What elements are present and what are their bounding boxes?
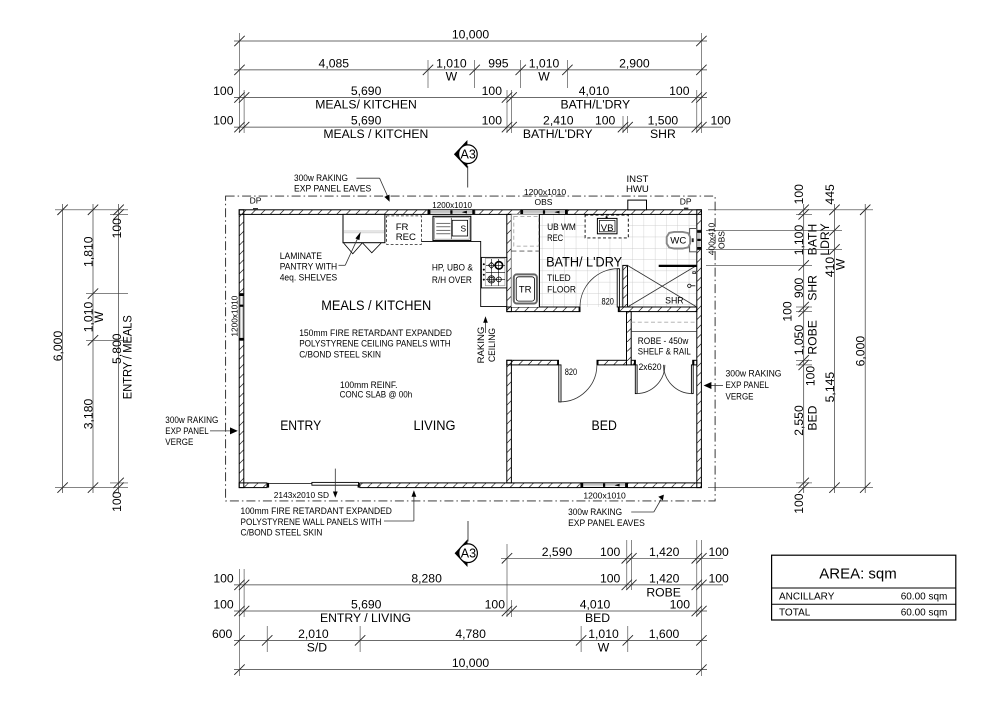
wall bottom segment middle — [360, 483, 581, 488]
window bed 1200x1010 bottom — [581, 483, 628, 488]
svg-text:2,010: 2,010 — [298, 627, 329, 641]
sliding door direction arrow — [333, 469, 338, 498]
svg-text:MEALS/ KITCHEN: MEALS/ KITCHEN — [315, 98, 417, 112]
right dimension line 100/1,100 BATH LDRY/900 SHR/100/1,050 ROBE/100/2,550 BED/100 — [803, 204, 805, 493]
svg-text:5,690: 5,690 — [351, 84, 382, 98]
svg-text:A3: A3 — [461, 148, 476, 162]
svg-text:1200x1010: 1200x1010 — [432, 200, 472, 210]
svg-text:MEALS / KITCHEN: MEALS / KITCHEN — [321, 298, 431, 314]
svg-text:ANCILLARY: ANCILLARY — [779, 592, 835, 603]
svg-text:1,810: 1,810 — [82, 236, 96, 267]
svg-text:1,010: 1,010 — [588, 627, 619, 641]
wall top segment right — [567, 210, 701, 215]
svg-text:SHR: SHR — [665, 296, 684, 307]
svg-text:820: 820 — [602, 297, 614, 307]
svg-text:100: 100 — [792, 184, 806, 205]
svg-text:1,500: 1,500 — [648, 114, 679, 128]
svg-text:100: 100 — [213, 84, 234, 98]
svg-text:ENTRY / LIVING: ENTRY / LIVING — [320, 611, 411, 625]
wall right segment upper — [697, 210, 702, 231]
bottom dimension line 100 / 8,280 / 100 / 1,420 ROBE / 100 — [234, 584, 723, 586]
svg-text:DP: DP — [250, 196, 262, 206]
wall left segment upper — [239, 210, 244, 294]
svg-text:C/BOND STEEL SKIN: C/BOND STEEL SKIN — [299, 349, 381, 360]
svg-text:100: 100 — [600, 545, 621, 559]
svg-text:ROBE - 450w: ROBE - 450w — [638, 336, 689, 347]
svg-text:1200x1010: 1200x1010 — [524, 187, 567, 197]
wall right segment lower — [697, 249, 702, 487]
svg-text:5,690: 5,690 — [351, 598, 382, 612]
svg-text:1,050: 1,050 — [792, 325, 806, 356]
svg-text:100: 100 — [110, 218, 124, 239]
door bed 820 leaf and swing — [559, 365, 597, 402]
fridge recess FR REC dashed — [387, 216, 422, 245]
svg-text:600: 600 — [212, 627, 233, 641]
svg-text:RAKING: RAKING — [476, 327, 487, 364]
svg-text:W: W — [834, 258, 848, 270]
svg-text:1,010: 1,010 — [529, 56, 560, 70]
svg-text:VERGE: VERGE — [726, 391, 754, 402]
top extension lines — [239, 33, 241, 133]
svg-text:REC: REC — [396, 232, 416, 243]
top dimension line 10,000 — [234, 40, 707, 42]
svg-text:60.00 sqm: 60.00 sqm — [901, 592, 948, 603]
wall bath bottom right of door and below shower — [618, 307, 697, 312]
svg-text:60.00 sqm: 60.00 sqm — [901, 608, 948, 619]
bottom dimension line 10,000 — [234, 669, 707, 671]
svg-text:5,690: 5,690 — [351, 114, 382, 128]
svg-text:100: 100 — [482, 114, 503, 128]
svg-text:LIVING: LIVING — [414, 418, 456, 434]
window left 1200x1010 — [239, 294, 244, 341]
left dimension line 100 / 5,800 ENTRY MEALS / 100 — [118, 204, 120, 493]
svg-text:TR: TR — [519, 285, 532, 296]
kitchen sink S — [433, 216, 471, 240]
svg-text:TILED: TILED — [547, 273, 571, 284]
svg-text:1,420: 1,420 — [649, 571, 680, 585]
svg-text:AREA: sqm: AREA: sqm — [819, 566, 897, 583]
svg-text:POLYSTYRENE WALL PANELS WITH: POLYSTYRENE WALL PANELS WITH — [241, 517, 382, 528]
svg-text:2,900: 2,900 — [619, 56, 650, 70]
svg-text:300w RAKING: 300w RAKING — [726, 369, 782, 380]
svg-text:FR: FR — [396, 222, 409, 233]
svg-text:LDRY: LDRY — [818, 223, 832, 255]
svg-text:1,010: 1,010 — [436, 56, 467, 70]
sliding door 2143x2010 SD — [267, 482, 360, 487]
svg-text:100: 100 — [213, 571, 234, 585]
svg-text:EXP PANEL EAVES: EXP PANEL EAVES — [294, 184, 371, 195]
kitchen bench edge — [421, 241, 506, 306]
svg-text:100: 100 — [670, 598, 691, 612]
window right 400x410 OBS — [697, 230, 702, 249]
svg-text:W: W — [92, 311, 106, 323]
svg-text:400x410: 400x410 — [706, 222, 716, 255]
svg-text:300w RAKING: 300w RAKING — [294, 173, 348, 184]
svg-text:ROBE: ROBE — [806, 320, 820, 355]
svg-text:4eq. SHELVES: 4eq. SHELVES — [280, 272, 338, 283]
svg-text:100: 100 — [600, 571, 621, 585]
svg-text:6,000: 6,000 — [51, 331, 65, 362]
svg-text:VERGE: VERGE — [165, 437, 193, 448]
svg-text:BATH/ L'DRY: BATH/ L'DRY — [546, 255, 622, 271]
pantry cupboard — [343, 214, 385, 253]
svg-text:10,000: 10,000 — [452, 656, 489, 670]
bottom dimension line 600 / 2,010 S/D / 4,780 / 1,010 W / 1,600 — [234, 639, 707, 641]
left dimension line 1,810 / 1,010 W / 3,180 — [92, 204, 94, 493]
svg-text:SHELF & RAIL: SHELF & RAIL — [638, 347, 692, 358]
svg-text:OBS: OBS — [717, 231, 727, 249]
wall stub left of robe doors — [631, 360, 635, 365]
wall kitchen-bath partition — [507, 214, 512, 311]
svg-text:HP, UBO &: HP, UBO & — [432, 262, 474, 273]
svg-text:2,410: 2,410 — [543, 114, 574, 128]
svg-text:REC: REC — [547, 233, 563, 244]
bottom extension lines — [239, 569, 241, 676]
svg-text:W: W — [598, 641, 610, 655]
svg-text:100: 100 — [792, 493, 806, 514]
window kitchen 1200x1010 top — [428, 210, 475, 215]
wall bottom segment left — [239, 483, 267, 488]
svg-text:1,420: 1,420 — [649, 545, 680, 559]
svg-text:5,145: 5,145 — [823, 372, 837, 403]
wall top segment left — [239, 210, 428, 215]
svg-text:SHR: SHR — [650, 127, 676, 141]
svg-text:BATH/L'DRY: BATH/L'DRY — [523, 127, 593, 141]
wall living-bed partition — [507, 360, 512, 483]
wall stub right of robe doors — [693, 360, 697, 365]
svg-text:10,000: 10,000 — [452, 27, 489, 41]
left dimension line 6,000 — [62, 204, 64, 493]
right extension lines — [708, 209, 873, 211]
wall shower partition — [623, 265, 628, 307]
svg-text:ENTRY / MEALS: ENTRY / MEALS — [121, 315, 135, 399]
top dimension line 100 / 5,690 MEALS KITCHEN / 100 / 4,010 BATH LDRY / 100 — [234, 97, 707, 99]
svg-text:S/D: S/D — [307, 641, 328, 655]
svg-text:VB: VB — [601, 223, 614, 234]
section marker A3 top — [454, 140, 477, 188]
svg-text:100: 100 — [804, 366, 818, 387]
section marker A3 bottom — [455, 521, 478, 567]
svg-text:6,000: 6,000 — [854, 336, 868, 367]
wall bed top right of door — [597, 360, 627, 365]
svg-text:100: 100 — [709, 545, 730, 559]
svg-text:BED: BED — [585, 611, 610, 625]
svg-text:DP: DP — [680, 197, 692, 207]
wall top segment middle — [475, 210, 521, 215]
wall bath bottom left of door — [507, 307, 580, 312]
svg-text:HWU: HWU — [626, 184, 649, 195]
svg-text:3,180: 3,180 — [82, 399, 96, 430]
svg-text:100: 100 — [110, 491, 124, 512]
door bath 820 leaf and swing — [580, 269, 619, 307]
left extension lines — [55, 209, 128, 211]
svg-text:100: 100 — [781, 301, 795, 322]
svg-text:100: 100 — [485, 598, 506, 612]
svg-text:4,010: 4,010 — [580, 598, 611, 612]
svg-text:BED: BED — [592, 418, 617, 434]
svg-text:100: 100 — [213, 598, 234, 612]
svg-text:S: S — [461, 224, 467, 234]
top dimension line 100 / 5,690 / 100 / 2,410 / 100 / 1,500 SHR / 100 — [234, 126, 723, 128]
svg-text:TOTAL: TOTAL — [779, 608, 811, 619]
right dimension line 6,000 — [864, 204, 866, 493]
svg-text:300w RAKING: 300w RAKING — [568, 507, 622, 518]
svg-text:1,100: 1,100 — [792, 225, 806, 256]
svg-text:100: 100 — [709, 571, 730, 585]
svg-text:PANTRY WITH: PANTRY WITH — [280, 262, 338, 273]
bath tiled floor grid — [511, 214, 696, 307]
window bath 1200x1010 OBS top — [521, 210, 568, 215]
wall left segment lower — [239, 340, 244, 487]
shower SHR cross and screen — [628, 265, 697, 307]
svg-text:POLYSTYRENE CEILING PANELS WIT: POLYSTYRENE CEILING PANELS WITH — [299, 339, 451, 350]
svg-text:CONC SLAB @ 00h: CONC SLAB @ 00h — [340, 390, 413, 401]
area table — [772, 555, 956, 620]
vanity basin VB — [585, 215, 628, 238]
svg-text:FLOOR: FLOOR — [547, 284, 576, 295]
svg-text:SHR: SHR — [806, 275, 820, 301]
laundry bench with UB WM REC — [511, 214, 539, 307]
robe doors 2x620 leaves and swings — [635, 365, 693, 394]
svg-text:4,780: 4,780 — [455, 627, 486, 641]
bottom dimension line 100 / 5,690 ENTRY LIVING / 100 / 4,010 BED / 100 — [234, 610, 707, 612]
svg-text:8,280: 8,280 — [411, 571, 442, 585]
svg-text:820: 820 — [565, 367, 577, 377]
svg-text:MEALS / KITCHEN: MEALS / KITCHEN — [323, 127, 428, 141]
svg-text:BED: BED — [806, 405, 820, 430]
svg-text:2,590: 2,590 — [542, 545, 573, 559]
wall bed top left of door — [507, 360, 559, 365]
cooktop HP UBO — [481, 257, 506, 288]
svg-text:EXP PANEL: EXP PANEL — [726, 380, 770, 391]
svg-text:1200x1010: 1200x1010 — [230, 295, 240, 336]
svg-text:900: 900 — [792, 278, 806, 299]
svg-text:2,550: 2,550 — [792, 405, 806, 436]
right dimension line 445 / 410 W / 5,145 — [834, 204, 836, 493]
svg-text:150mm FIRE RETARDANT EXPANDED: 150mm FIRE RETARDANT EXPANDED — [299, 328, 452, 339]
svg-text:W: W — [538, 70, 550, 84]
svg-text:300w RAKING: 300w RAKING — [165, 415, 218, 426]
svg-text:2143x2010 SD: 2143x2010 SD — [274, 490, 329, 500]
svg-text:100mm FIRE RETARDANT EXPANDED: 100mm FIRE RETARDANT EXPANDED — [241, 506, 392, 517]
svg-text:4,085: 4,085 — [319, 56, 350, 70]
svg-text:ENTRY: ENTRY — [280, 418, 321, 434]
top dimension line 4,085 / 1,010 W / 995 / 1,010 W / 2,900 — [234, 69, 707, 71]
svg-text:LAMINATE: LAMINATE — [280, 251, 322, 262]
svg-text:1200x1010: 1200x1010 — [583, 490, 626, 500]
svg-text:1,600: 1,600 — [649, 627, 680, 641]
svg-text:UB WM: UB WM — [547, 222, 576, 233]
svg-text:4,010: 4,010 — [579, 84, 610, 98]
eaves dashed outline 300w — [226, 196, 715, 501]
door jamb marks — [579, 307, 580, 312]
svg-text:CEILING: CEILING — [487, 328, 498, 362]
svg-text:A3: A3 — [461, 547, 476, 561]
svg-text:445: 445 — [823, 184, 837, 205]
label RAKING CEILING with arrow — [483, 316, 488, 333]
svg-text:C/BOND STEEL SKIN: C/BOND STEEL SKIN — [241, 528, 323, 539]
wall robe left — [627, 312, 632, 365]
svg-text:R/H OVER: R/H OVER — [432, 275, 472, 286]
svg-text:EXP PANEL: EXP PANEL — [165, 426, 209, 437]
bottom dimension line 2,590 / 100 / 1,420 / 100 — [501, 557, 723, 559]
svg-text:WC: WC — [670, 236, 686, 247]
svg-text:EXP PANEL EAVES: EXP PANEL EAVES — [568, 518, 645, 529]
svg-text:100: 100 — [595, 114, 616, 128]
svg-text:995: 995 — [488, 56, 509, 70]
svg-text:100: 100 — [482, 84, 503, 98]
toilet WC — [667, 229, 697, 252]
svg-text:100: 100 — [711, 114, 732, 128]
svg-text:BATH/L'DRY: BATH/L'DRY — [560, 97, 630, 111]
svg-text:OBS: OBS — [535, 197, 553, 207]
wall bottom segment right — [628, 483, 702, 488]
svg-text:W: W — [446, 70, 458, 84]
svg-text:2x620: 2x620 — [639, 362, 662, 372]
svg-text:100: 100 — [669, 84, 690, 98]
robe shelf and rail — [631, 322, 697, 331]
laundry trough TR — [514, 274, 537, 303]
svg-text:100: 100 — [213, 114, 234, 128]
